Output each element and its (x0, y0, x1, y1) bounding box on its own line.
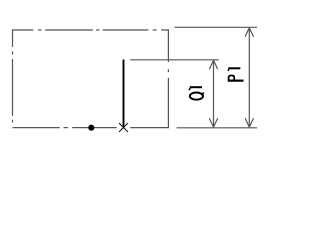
extension line for Q1 (top) (130, 59, 219, 61)
dimension line Q1 with open arrowheads (209, 60, 217, 127)
label P1 (rotated, drawn as strokes) (228, 68, 244, 80)
dimension line P1 with open arrowheads (245, 28, 253, 128)
extension line bottom baseline (177, 127, 258, 129)
extension line for P1 (top) (174, 26, 257, 28)
label Q1 (rotated, drawn as strokes) (189, 87, 204, 100)
X terminal marker (119, 123, 128, 132)
chain-line rectangle left side (12, 51, 14, 122)
node dot on bottom chain line (88, 125, 94, 131)
chain-line rectangle bottom side (13, 127, 117, 129)
thick vertical element line (123, 60, 125, 128)
chain-line rectangle top side (13, 30, 169, 62)
chain-line rectangle right side (130, 69, 168, 127)
